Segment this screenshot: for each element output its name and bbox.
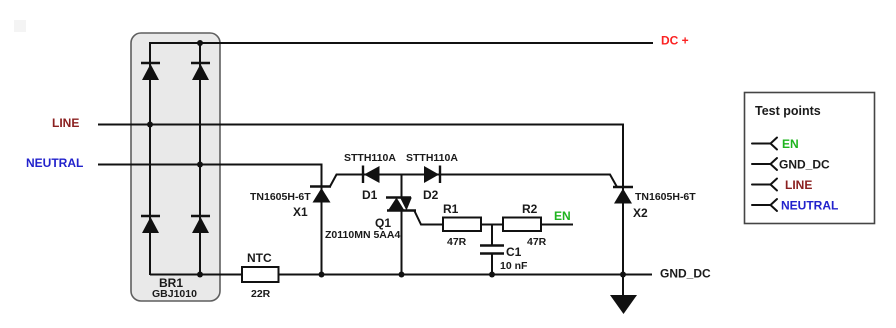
svg-text:X2: X2 xyxy=(633,206,648,220)
faint artifact square xyxy=(14,20,26,32)
junction C1 GND xyxy=(489,272,495,278)
svg-text:NTC: NTC xyxy=(247,251,272,265)
svg-text:Q1: Q1 xyxy=(375,216,391,230)
wire DC+ top rail xyxy=(150,42,653,44)
diode D2 xyxy=(424,166,440,184)
junction X2 GND xyxy=(620,272,626,278)
svg-text:D1: D1 xyxy=(362,188,378,202)
diode bridge top-right xyxy=(191,63,210,80)
resistor R2 xyxy=(503,218,541,232)
wire C1 to GND rail xyxy=(491,253,493,275)
svg-text:C1: C1 xyxy=(506,245,522,259)
triac Q1 xyxy=(386,198,416,211)
svg-text:DC +: DC + xyxy=(661,34,689,48)
svg-text:Z0110MN 5AA4: Z0110MN 5AA4 xyxy=(325,229,400,241)
test point probe EN xyxy=(752,138,777,150)
wire GND_DC bottom rail xyxy=(150,274,652,276)
svg-text:EN: EN xyxy=(782,137,799,151)
svg-text:GND_DC: GND_DC xyxy=(660,267,711,281)
svg-text:LINE: LINE xyxy=(52,116,79,130)
wire X1 gate to D1 D2 to X2 gate xyxy=(330,175,617,188)
wire R1 to R2 xyxy=(481,224,503,226)
diode bridge bottom-right xyxy=(191,216,210,233)
wire LINE net to X2 riser xyxy=(98,125,623,297)
svg-text:47R: 47R xyxy=(527,236,547,248)
diode bridge top-left xyxy=(141,63,160,80)
test point probe LINE xyxy=(752,179,777,191)
svg-text:X1: X1 xyxy=(293,205,308,219)
svg-text:TN1605H-6T: TN1605H-6T xyxy=(635,191,696,203)
svg-text:22R: 22R xyxy=(251,288,271,300)
svg-text:10 nF: 10 nF xyxy=(500,260,528,272)
junction X1 anode GND xyxy=(319,272,325,278)
svg-text:LINE: LINE xyxy=(785,178,812,192)
wire C1 branch xyxy=(491,225,493,246)
wire R2 to EN xyxy=(541,224,573,226)
junction NEUTRAL-bridge xyxy=(197,162,203,168)
svg-text:Test points: Test points xyxy=(755,104,821,118)
test points legend box xyxy=(745,93,875,224)
wire NEUTRAL net to X1 riser xyxy=(98,165,322,276)
svg-text:TN1605H-6T: TN1605H-6T xyxy=(250,191,311,203)
resistor R1 xyxy=(443,218,481,232)
svg-text:R1: R1 xyxy=(443,202,459,216)
svg-text:47R: 47R xyxy=(447,236,467,248)
svg-text:EN: EN xyxy=(554,209,571,223)
svg-text:GND_DC: GND_DC xyxy=(779,158,830,172)
junction Q1 GND xyxy=(399,272,405,278)
diode D1 xyxy=(363,166,380,184)
bridge rectifier BR1 body xyxy=(131,33,220,301)
wire bridge right vertical xyxy=(199,42,201,275)
svg-text:NEUTRAL: NEUTRAL xyxy=(26,156,83,170)
resistor NTC xyxy=(242,267,279,282)
wire D1-D2 node down to Q1 xyxy=(401,175,403,199)
diode bridge bottom-left xyxy=(141,216,160,233)
wire Q1 gate to R1 xyxy=(415,211,444,225)
svg-text:STTH110A: STTH110A xyxy=(406,152,458,164)
capacitor C1 xyxy=(480,246,504,254)
junction bottom bridge xyxy=(197,272,203,278)
svg-text:STTH110A: STTH110A xyxy=(344,152,396,164)
wire bridge left vertical xyxy=(149,42,151,275)
junction top node xyxy=(197,40,203,46)
svg-text:GBJ1010: GBJ1010 xyxy=(152,288,197,300)
test point probe GND_DC xyxy=(752,158,777,170)
test point probe NEUTRAL xyxy=(752,199,777,211)
thyristor X2 xyxy=(613,187,633,204)
wire Q1 bottom to GND rail xyxy=(401,210,403,275)
thyristor X1 xyxy=(310,187,331,203)
ground xyxy=(610,295,637,314)
svg-text:D2: D2 xyxy=(423,188,439,202)
junction LINE-bridge xyxy=(147,122,153,128)
svg-text:NEUTRAL: NEUTRAL xyxy=(781,199,838,213)
svg-text:R2: R2 xyxy=(522,202,538,216)
